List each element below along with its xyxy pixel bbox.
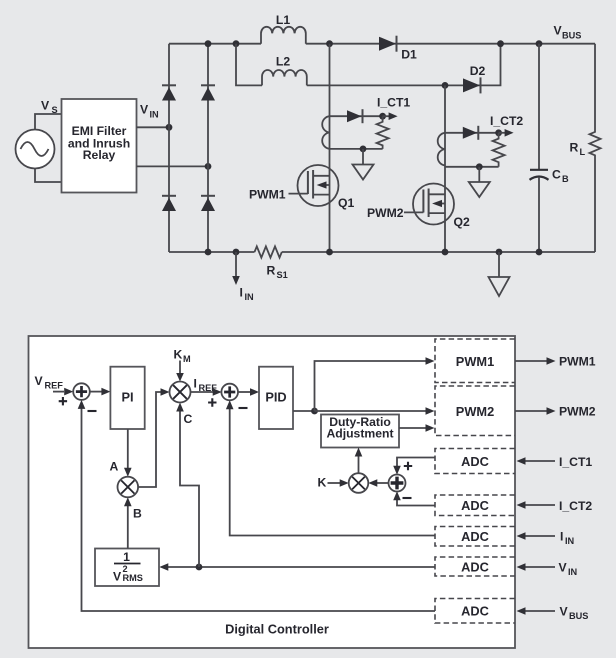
node main gnd tap xyxy=(496,249,503,256)
node VBUS xyxy=(536,40,543,47)
node CT2 gnd tap xyxy=(476,163,483,170)
svg-text:M: M xyxy=(183,354,191,364)
block PID xyxy=(259,367,293,429)
ground CT2 xyxy=(469,167,490,197)
arrow I_CT1 input xyxy=(517,457,556,465)
wire I_CT1 feedback into S3 plus xyxy=(393,458,435,475)
svg-text:PI: PI xyxy=(121,390,133,405)
node CT1 out xyxy=(379,113,386,120)
arrow duty-ratio out to PWM2 block xyxy=(399,424,435,432)
svg-text:Q1: Q1 xyxy=(338,196,354,210)
label VBUS xyxy=(554,24,582,41)
resistor CT1 burden xyxy=(377,116,389,149)
dashed block PWM1 xyxy=(435,339,515,383)
arrow S2 to PID xyxy=(238,388,259,396)
ac source VS xyxy=(16,130,55,169)
svg-text:I: I xyxy=(240,286,243,300)
svg-text:S1: S1 xyxy=(277,270,288,280)
diode D1 xyxy=(379,36,397,52)
svg-text:I: I xyxy=(194,377,197,391)
arrow to PWM1 block xyxy=(315,357,435,411)
wire ac top to EMI xyxy=(35,114,62,130)
arrow PWM2 output xyxy=(515,407,556,415)
transistor Q1 xyxy=(289,165,339,206)
wire CT2 bottom lead xyxy=(445,166,499,168)
transistor Q2 xyxy=(404,184,454,225)
svg-text:PWM2: PWM2 xyxy=(367,206,404,220)
arrow K into multiplier xyxy=(328,479,349,487)
arrow S1 to PI xyxy=(90,388,111,396)
svg-text:ADC: ADC xyxy=(461,454,489,469)
svg-text:L1: L1 xyxy=(276,13,290,27)
svg-text:PWM1: PWM1 xyxy=(249,188,286,202)
svg-text:ADC: ADC xyxy=(461,560,489,575)
label RL xyxy=(570,141,586,158)
dashed block PWM2 xyxy=(435,386,515,436)
wire bridge right leg xyxy=(207,44,209,252)
node CT1 gnd tap xyxy=(360,146,367,153)
node VIN feedback branch xyxy=(196,564,203,571)
wire multiplier A out to multiplier KM xyxy=(138,388,169,487)
node Q1 source xyxy=(326,249,333,256)
dashed block ADC5 xyxy=(435,599,515,624)
ground main xyxy=(489,252,510,296)
svg-text:RMS: RMS xyxy=(123,573,143,583)
svg-text:ADC: ADC xyxy=(461,529,489,544)
summer S2 xyxy=(221,384,238,401)
wire CT2 top lead xyxy=(445,132,499,134)
wire ac bottom to EMI xyxy=(35,169,62,183)
node IIN tap xyxy=(233,249,240,256)
svg-text:B: B xyxy=(562,174,569,184)
dashed block ADC3 xyxy=(435,527,515,547)
svg-text:V: V xyxy=(35,374,44,388)
svg-text:REF: REF xyxy=(45,381,64,391)
inductor L2 xyxy=(262,70,307,85)
svg-text:K: K xyxy=(174,348,183,362)
label RS1 xyxy=(267,264,288,281)
label VIN xyxy=(140,103,159,120)
wire top rail right xyxy=(306,43,595,45)
resistor RL xyxy=(590,44,601,252)
sign minus S1 xyxy=(88,410,97,412)
arrow CT2 output xyxy=(499,129,514,137)
svg-text:I_CT1: I_CT1 xyxy=(377,96,410,110)
svg-text:B: B xyxy=(133,507,142,521)
node CB bottom xyxy=(536,249,543,256)
arrow VREF into summer S1 xyxy=(53,388,73,396)
resistor RS1 xyxy=(255,246,282,257)
diode bridge bottom-left xyxy=(162,196,176,211)
node Q2 source xyxy=(442,249,449,256)
label VIN in xyxy=(559,561,578,578)
svg-text:ADC: ADC xyxy=(461,604,489,619)
arrow to PWM2 block xyxy=(315,407,435,415)
node right leg top xyxy=(205,40,212,47)
wire L2 branch xyxy=(236,44,262,86)
node CT2 out xyxy=(495,129,502,136)
wire bottom rail xyxy=(169,251,255,253)
multiplier A xyxy=(118,477,139,498)
arrow IIN input xyxy=(517,532,556,540)
transformer I_CT1 secondary xyxy=(322,116,329,149)
arrow KM mult to summer S2 xyxy=(191,388,222,396)
sign plus S1 xyxy=(59,397,67,405)
capacitor CB xyxy=(530,44,549,252)
svg-text:Adjustment: Adjustment xyxy=(326,426,393,440)
svg-text:ADC: ADC xyxy=(461,498,489,513)
diode CT2 xyxy=(463,126,479,140)
svg-text:Q2: Q2 xyxy=(454,215,470,229)
svg-text:K: K xyxy=(318,476,327,490)
block 1/V2RMS xyxy=(95,549,159,587)
svg-text:V: V xyxy=(140,103,149,117)
svg-text:BUS: BUS xyxy=(562,31,581,41)
svg-text:I_CT2: I_CT2 xyxy=(559,499,592,513)
wire Q2 drain branch xyxy=(444,85,446,252)
wire CT1 bottom lead xyxy=(330,148,383,150)
svg-text:D1: D1 xyxy=(401,48,417,62)
label KM xyxy=(174,348,192,365)
arrow KM into multiplier xyxy=(176,361,184,382)
svg-text:I_CT1: I_CT1 xyxy=(559,455,592,469)
diode CT1 xyxy=(347,109,363,123)
multiplier K xyxy=(349,473,369,493)
wire EMI to bridge left leg xyxy=(137,126,170,128)
svg-text:L: L xyxy=(580,147,586,157)
svg-text:Digital Controller: Digital Controller xyxy=(225,622,329,637)
arrow IIN xyxy=(232,252,240,285)
multiplier KM xyxy=(170,382,191,403)
node Q2 tap xyxy=(442,82,449,89)
ground CT1 xyxy=(353,149,374,180)
svg-text:BUS: BUS xyxy=(569,611,588,621)
sign plus S3 xyxy=(404,462,412,470)
svg-text:PWM2: PWM2 xyxy=(456,404,494,419)
svg-text:D2: D2 xyxy=(470,64,486,78)
summer S1 xyxy=(73,383,90,400)
EMI filter block xyxy=(62,99,137,193)
node bridge right mid xyxy=(205,163,212,170)
dashed block ADC2 xyxy=(435,495,515,516)
digital controller box xyxy=(29,336,516,648)
node VIN xyxy=(166,124,173,131)
svg-text:C: C xyxy=(552,168,561,182)
svg-text:IN: IN xyxy=(245,292,255,302)
node L2 tap xyxy=(233,40,240,47)
svg-text:R: R xyxy=(267,264,276,278)
dashed block ADC4 xyxy=(435,557,515,576)
wire PID out xyxy=(293,410,315,412)
block Duty-Ratio Adjustment xyxy=(321,415,399,448)
svg-text:I_CT2: I_CT2 xyxy=(490,114,523,128)
arrow CT1 output xyxy=(383,112,398,120)
arrow VBUS input xyxy=(517,607,556,615)
arrow B out of 1/V2RMS to multiplier A xyxy=(124,497,132,548)
arrow I_CT2 input xyxy=(517,501,556,509)
label VBUS in xyxy=(560,605,589,622)
svg-text:PWM1: PWM1 xyxy=(456,354,494,369)
svg-text:PWM2: PWM2 xyxy=(559,405,596,419)
sign minus S3 xyxy=(403,497,412,499)
svg-text:PID: PID xyxy=(265,390,286,405)
arrow summer S3 to multiplier K xyxy=(368,479,388,487)
diode bridge bottom-right xyxy=(201,196,215,211)
wire Q1 drain branch xyxy=(329,44,331,252)
svg-text:A: A xyxy=(110,460,119,474)
svg-text:V: V xyxy=(113,570,122,584)
wire IIN feedback to S2 xyxy=(226,400,435,535)
arrow VIN input xyxy=(517,563,556,571)
label IIN in xyxy=(560,530,575,547)
sign plus S2 xyxy=(208,398,216,406)
svg-text:C: C xyxy=(184,412,193,426)
wire bridge left leg xyxy=(168,44,170,252)
node bridge right leg bottom xyxy=(205,249,212,256)
label VS xyxy=(41,99,58,116)
wire L2 out to D2 riser xyxy=(307,44,501,86)
dashed block ADC1 xyxy=(435,449,515,474)
arrow PI to multiplier A xyxy=(124,429,132,477)
wire I_CT2 feedback into S3 minus xyxy=(393,491,435,505)
node D2 riser top xyxy=(497,40,504,47)
wire EMI to bridge right leg xyxy=(137,165,209,167)
wire top rail left xyxy=(169,43,261,45)
svg-text:IN: IN xyxy=(565,536,575,546)
label CB xyxy=(552,168,569,185)
label IIN xyxy=(240,286,255,303)
svg-text:PWM1: PWM1 xyxy=(559,355,596,369)
wire CT1 top lead xyxy=(330,115,383,117)
wire VIN feedback xyxy=(159,563,435,571)
diode bridge top-right xyxy=(201,85,215,100)
svg-text:1: 1 xyxy=(123,550,130,564)
wire C branch to KM multiplier xyxy=(176,403,199,568)
svg-text:V: V xyxy=(560,605,569,619)
transformer I_CT2 secondary xyxy=(438,133,445,166)
summer S3 xyxy=(389,475,406,492)
wire VBUS feedback to S1 xyxy=(78,400,435,611)
wire bottom rail right xyxy=(282,251,595,253)
diode bridge top-left xyxy=(162,85,176,100)
svg-text:V: V xyxy=(559,561,568,575)
node PID branch xyxy=(311,408,318,415)
diode D2 xyxy=(463,77,481,93)
svg-text:R: R xyxy=(570,141,579,155)
svg-text:Relay: Relay xyxy=(83,148,116,162)
svg-text:V: V xyxy=(41,99,50,113)
label IREF xyxy=(194,377,218,394)
inductor L1 xyxy=(261,27,306,44)
label VREF xyxy=(35,374,64,391)
sign minus S2 xyxy=(239,407,248,409)
node L1 out xyxy=(326,40,333,47)
resistor CT2 burden xyxy=(493,133,505,167)
svg-text:IN: IN xyxy=(150,109,160,119)
arrow PWM1 output xyxy=(515,357,556,365)
arrow multiplier K to duty-ratio xyxy=(355,448,363,474)
svg-text:IN: IN xyxy=(568,567,578,577)
svg-text:L2: L2 xyxy=(276,55,290,69)
block PI xyxy=(110,367,144,429)
svg-text:I: I xyxy=(560,530,563,544)
